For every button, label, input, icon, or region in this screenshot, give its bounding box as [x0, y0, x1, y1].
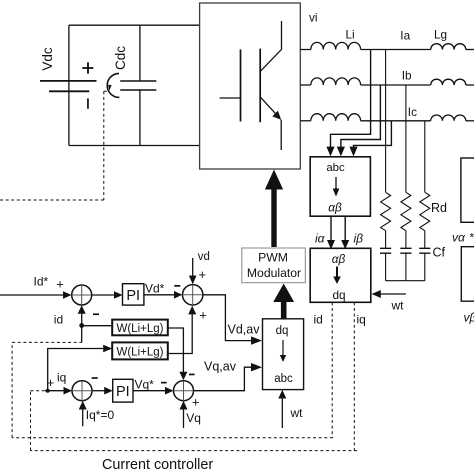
resistor Rd (phase b) — [401, 192, 411, 230]
node: iq junction dot — [46, 389, 50, 393]
svg-text:dq: dq — [332, 288, 345, 302]
wire: iq solid into q summer — [45, 390, 64, 392]
svg-text:Vq*: Vq* — [135, 378, 155, 392]
svg-text:+: + — [192, 395, 200, 410]
minus sign (id into d summer) — [93, 313, 99, 315]
ic arrowhead — [349, 147, 357, 157]
arrow inside alpha-beta/dq block — [336, 267, 338, 279]
arrowhead W1 into q summer top — [179, 372, 187, 381]
wire: Vq input — [183, 408, 185, 428]
svg-text:W(Li+Lg): W(Li+Lg) — [117, 346, 164, 358]
wire: phase a from inverter — [300, 49, 311, 51]
block W(Li+Lg) lower — [112, 342, 168, 359]
svg-text:Lg: Lg — [434, 28, 447, 42]
arrowhead into q PI — [104, 387, 113, 395]
svg-text:Vdc: Vdc — [40, 47, 55, 71]
dashed wire: vdc feedback vertical — [104, 91, 110, 200]
summing junction d error — [72, 285, 92, 305]
wire: ic tap to abc block — [354, 121, 392, 148]
transistor gate lead — [220, 97, 241, 99]
wire: phase b mid — [361, 84, 431, 86]
svg-text:vα: vα — [452, 231, 466, 245]
block abc to alpha-beta (currents) — [310, 157, 370, 216]
wire: phase a mid — [361, 49, 431, 51]
arrowhead into d PI — [114, 291, 123, 299]
svg-text:Id*: Id* — [34, 275, 49, 289]
svg-text:+: + — [199, 308, 207, 323]
arrowhead iq into W2 box — [103, 345, 112, 353]
wire: id up into d summer — [81, 313, 83, 326]
svg-text:vβ: vβ — [464, 311, 474, 325]
capacitor Cf (phase a) — [380, 248, 391, 253]
svg-text:Rd: Rd — [431, 201, 447, 215]
svg-text:Cf: Cf — [433, 246, 446, 260]
battery Vdc plates — [40, 81, 97, 91]
dashed wire: id feedback bottom horizontal — [12, 437, 333, 439]
block dq to abc (control) — [263, 319, 304, 390]
transistor emitter vertical — [280, 120, 282, 150]
svg-text:Ia: Ia — [400, 28, 410, 42]
wire: resistor to capacitor phase a — [385, 231, 387, 249]
arrowhead Vd,av into dq/abc block — [251, 336, 262, 344]
dashed wire: iq feedback vertical — [353, 302, 355, 450]
node: id junction dot — [79, 323, 84, 328]
dashed wire: iq into q summer — [31, 390, 46, 392]
svg-text:id: id — [54, 313, 63, 327]
block PI (d axis) — [123, 284, 144, 305]
wire: W1 output to q summer top — [168, 328, 184, 373]
dashed wire: id feedback left vertical — [11, 342, 13, 437]
wire: Cdc branch top — [139, 25, 141, 81]
wire: wt input to dq/abc block — [281, 396, 283, 428]
inductor Lg phase a — [431, 44, 466, 50]
minus sign (Vd* into summer) — [174, 285, 180, 287]
svg-text:*: * — [470, 231, 474, 245]
arrow inside abc block — [335, 177, 337, 190]
wire: d summer output Vd,av — [203, 295, 252, 341]
wire: resistor to capacitor phase c — [424, 231, 426, 249]
wire: i-alpha output — [330, 216, 332, 241]
dashed wire: vdc feedback horizontal — [0, 199, 104, 201]
capacitor Cdc — [120, 81, 156, 90]
svg-text:Current controller: Current controller — [102, 457, 213, 473]
svg-text:Cdc: Cdc — [113, 46, 128, 70]
wire: d summer to PI — [92, 294, 115, 296]
svg-text:Li: Li — [346, 28, 355, 42]
wire: q summer output Vq,av — [194, 367, 252, 391]
capacitor Cf (phase b) — [400, 248, 411, 253]
svg-text:vd: vd — [198, 251, 210, 263]
wire: ib tap to abc block — [341, 85, 381, 148]
svg-text:id: id — [314, 313, 323, 327]
svg-text:αβ: αβ — [328, 201, 342, 215]
wire: iq riser to W2 — [48, 349, 104, 391]
dashed wire: iq feedback left vertical — [30, 391, 32, 451]
inductor Li phase b — [311, 78, 361, 85]
svg-text:Vq: Vq — [186, 411, 201, 425]
svg-text:PI: PI — [126, 288, 140, 304]
wire: Rd branch phase a — [385, 50, 387, 193]
wire: d PI to second summer — [144, 294, 174, 296]
svg-text:+: + — [56, 277, 64, 292]
block abc/alpha-beta (voltages, cut off at right edge) — [461, 158, 474, 222]
wire: wt input to dq block — [380, 293, 406, 295]
summing junction q error — [72, 381, 92, 401]
block PWM modulator — [242, 248, 305, 283]
svg-text:iq: iq — [57, 371, 66, 385]
transistor collector lead — [260, 21, 281, 71]
wire: phase c mid — [361, 120, 431, 122]
svg-text:wt: wt — [391, 299, 405, 313]
wire: q PI to second summer — [133, 390, 165, 392]
svg-text:+: + — [199, 267, 207, 282]
inductor Li phase a — [311, 42, 361, 49]
minus sign (Vq* into summer) — [161, 382, 167, 384]
wire: vd feedforward down — [192, 258, 194, 276]
svg-text:Vq,av: Vq,av — [204, 360, 237, 374]
inductor Lg phase b — [431, 79, 466, 85]
svg-text:Ic: Ic — [408, 105, 417, 119]
transistor body bar — [259, 49, 261, 123]
arrowhead into second d summer — [174, 291, 182, 299]
arrowhead into d summer — [63, 291, 72, 299]
summing junction q output — [174, 381, 194, 401]
dashed wire: iq feedback bottom horizontal — [31, 450, 358, 452]
transistor (IGBT) gate vertical — [240, 49, 242, 121]
dashed wire: id feedback vertical — [331, 302, 333, 437]
wire: Vdc left vertical — [68, 25, 70, 145]
wire: ia tap to abc block — [331, 50, 371, 148]
wire: id to W1 box — [82, 325, 113, 327]
transistor emitter arrowhead — [272, 111, 281, 120]
wire: Id* input line — [0, 294, 65, 296]
summing junction d output — [183, 285, 203, 305]
block W(Li+Lg) upper — [112, 320, 168, 336]
wire: phase c from inverter — [300, 120, 311, 122]
wire: phase b from inverter — [300, 84, 311, 86]
svg-text:iα: iα — [315, 232, 326, 246]
minus sign (W1 into q summer) — [189, 374, 195, 376]
svg-text:αβ: αβ — [332, 252, 346, 266]
arrowhead id into summer bottom — [78, 305, 86, 314]
svg-text:PI: PI — [116, 384, 130, 400]
svg-text:W(Li+Lg): W(Li+Lg) — [117, 323, 164, 335]
svg-text:abc: abc — [326, 162, 345, 174]
wire: Cf common bus — [386, 280, 425, 282]
resistor Rd (phase c) — [420, 192, 430, 230]
wire: capacitor bottoms to bus — [386, 253, 425, 281]
arrowhead vd into summer top — [189, 276, 197, 285]
transistor emitter lead — [260, 97, 277, 116]
wire: i-beta output — [344, 216, 346, 241]
wire: Rd branch phase b — [405, 85, 407, 192]
arrowhead Iq* into q summer — [79, 401, 87, 410]
wire: resistor to capacitor phase b — [405, 231, 407, 249]
capacitor Cf (phase c) — [419, 248, 430, 253]
vdc measurement arc arrowhead — [108, 85, 111, 91]
block PI (q axis) — [113, 379, 133, 402]
svg-text:+: + — [47, 375, 55, 390]
vdc measurement arc — [107, 73, 119, 97]
thick arrow dq/abc block to PWM — [281, 301, 287, 319]
wire: DC bus bottom — [69, 145, 200, 147]
minus sign (q summer upper right) — [92, 377, 98, 379]
arrow inside dq/abc block — [282, 340, 284, 357]
arrowhead Vq into q summer bottom — [180, 401, 188, 410]
wire: Rd branch phase c — [424, 121, 426, 193]
block alpha-beta to dq (currents) — [310, 248, 371, 302]
arrowhead W2 into d summer bottom — [188, 306, 196, 315]
wire: Cdc branch bottom — [139, 90, 141, 146]
arrowhead into second q summer — [165, 387, 174, 395]
svg-text:iβ: iβ — [354, 232, 364, 246]
svg-text:Ib: Ib — [402, 69, 412, 83]
svg-text:Vd,av: Vd,av — [228, 323, 261, 337]
svg-text:dq: dq — [276, 325, 289, 337]
svg-text:iq: iq — [357, 313, 366, 327]
resistor Rd (phase a) — [381, 192, 391, 230]
wire: q summer to PI — [92, 390, 105, 392]
arrowhead Vq,av into dq/abc block — [251, 363, 262, 371]
svg-text:abc: abc — [274, 373, 293, 385]
battery plus sign — [82, 67, 93, 69]
wire: Iq* input — [82, 408, 84, 426]
wire: phase c right — [466, 120, 474, 122]
svg-text:Modulator: Modulator — [247, 266, 301, 280]
svg-text:vi: vi — [309, 11, 318, 25]
wire: DC bus top — [69, 24, 200, 26]
ia arrowhead — [326, 147, 334, 157]
wire: phase b right — [466, 84, 474, 86]
svg-text:wt: wt — [290, 406, 304, 420]
block alpha-beta/dq (voltages, cut off at right edge) — [461, 247, 474, 302]
wire: phase a right — [466, 49, 474, 51]
svg-text:PWM: PWM — [258, 250, 288, 264]
thick arrow PWM to inverter — [271, 188, 276, 247]
svg-text:Iq*=0: Iq*=0 — [86, 408, 115, 422]
battery minus sign (rotated) — [87, 98, 89, 108]
wire: W2 output to d summer bottom — [168, 313, 192, 354]
inverter block — [200, 3, 301, 169]
inductor Lg phase c — [431, 115, 466, 121]
wire: id dashed-to-solid riser — [81, 326, 83, 343]
dashed wire: id feedback to junction — [12, 341, 82, 343]
arrowhead iq into q summer — [64, 387, 73, 395]
inductor Li phase c — [311, 114, 361, 121]
svg-text:Vd*: Vd* — [145, 282, 165, 296]
ib arrowhead — [337, 147, 345, 157]
